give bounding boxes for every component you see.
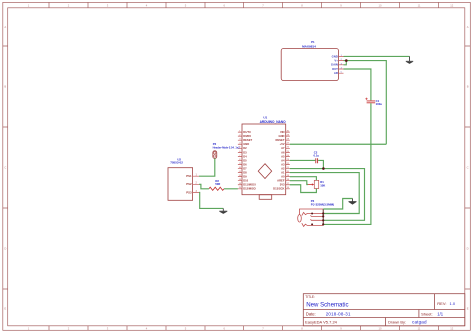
svg-text:50R: 50R — [215, 182, 220, 186]
svg-text:D2: D2 — [243, 146, 247, 150]
svg-text:D5: D5 — [243, 158, 247, 162]
svg-text:AREF: AREF — [277, 179, 285, 183]
svg-text:AR: AR — [334, 71, 338, 75]
svg-text:PJ-325M(3.5MM): PJ-325M(3.5MM) — [311, 202, 334, 206]
svg-text:PS2: PS2 — [186, 182, 192, 186]
svg-text:D: D — [467, 247, 469, 251]
svg-text:D9: D9 — [243, 175, 247, 179]
P1 pin names GND V+ GAIN OUT AR — [331, 54, 338, 75]
svg-text:PS1: PS1 — [186, 174, 192, 178]
svg-text:Header-Male-2.54_1x1: Header-Male-2.54_1x1 — [213, 145, 241, 149]
P3 ring contact — [311, 219, 324, 220]
wire A0 to R1 top — [290, 177, 317, 181]
potentiometer R1 10K — [308, 180, 325, 188]
ground near U2 — [219, 208, 227, 214]
svg-text:11: 11 — [418, 4, 421, 8]
svg-text:A7: A7 — [281, 146, 285, 150]
U1 pins left and right — [238, 132, 290, 189]
wire PS1 to P2 — [199, 158, 215, 176]
wire A4 to C2 — [290, 159, 316, 161]
U1 USB tab — [259, 195, 272, 200]
svg-text:RESET: RESET — [276, 138, 285, 142]
polarized capacitor C1 100u — [365, 98, 382, 106]
wire P1 V+ / GAIN to +5V net — [344, 61, 387, 145]
C2 plates — [316, 158, 318, 163]
ground near P1 — [406, 56, 413, 64]
P3 sleeve barrel — [298, 215, 302, 223]
svg-text:C: C — [4, 166, 6, 170]
svg-text:Sheet:: Sheet: — [421, 311, 433, 316]
P1 pins 1-5 — [339, 56, 344, 73]
svg-text:A2: A2 — [281, 166, 285, 170]
capacitor C2 0.1u — [314, 151, 320, 164]
U1 symbol body — [242, 124, 286, 195]
mcu U1 ARDUINO_NANO — [238, 116, 290, 200]
C1 polarity plus sign — [365, 98, 367, 100]
svg-text:D12/MISO: D12/MISO — [243, 187, 256, 191]
svg-text:2018-08-31: 2018-08-31 — [326, 311, 351, 316]
svg-text:A: A — [4, 25, 6, 29]
junction jack pin5 — [322, 223, 324, 225]
svg-text:D6: D6 — [243, 162, 247, 166]
R1 body — [314, 180, 318, 188]
wire P1 GND to ground — [344, 55, 410, 57]
wire A2 to jack — [290, 169, 365, 221]
svg-text:D1/TX: D1/TX — [243, 130, 251, 134]
svg-text:D10: D10 — [243, 179, 248, 183]
svg-text:A4: A4 — [281, 158, 285, 162]
wire A1 to jack — [290, 173, 359, 214]
svg-text:10: 10 — [379, 327, 382, 331]
P3 contact dot bottom — [311, 223, 313, 225]
P2 symbol body — [213, 151, 217, 159]
svg-text:C: C — [467, 166, 469, 170]
wire AREF to R1 wiper — [290, 181, 308, 185]
svg-text:Drawn By:: Drawn By: — [388, 320, 406, 325]
R1 wiper arrow — [308, 184, 313, 186]
svg-text:A3: A3 — [281, 162, 285, 166]
svg-text:D3: D3 — [243, 150, 247, 154]
svg-text:1/1: 1/1 — [437, 311, 443, 316]
svg-text:GND: GND — [279, 134, 285, 138]
U1 pin numbers 1-15 and 16-30 — [239, 131, 290, 190]
wire +5V from U1 — [290, 143, 387, 145]
svg-text:D11/MOSI: D11/MOSI — [243, 183, 256, 187]
svg-text:D: D — [4, 247, 6, 251]
svg-text:12: 12 — [450, 327, 453, 331]
svg-text:catgad: catgad — [412, 320, 427, 325]
U2 symbol body — [168, 168, 193, 201]
P3 switch contact bottom — [302, 223, 323, 226]
svg-text:D0/RX: D0/RX — [243, 134, 251, 138]
svg-text:E: E — [467, 307, 469, 311]
junction jack pin4 — [322, 219, 324, 221]
svg-text:GND: GND — [243, 142, 249, 146]
svg-text:New Schematic: New Schematic — [306, 301, 348, 308]
svg-text:EasyEDA V5.7.24: EasyEDA V5.7.24 — [305, 320, 338, 325]
P3 pin bus line — [322, 209, 324, 224]
svg-text:12: 12 — [450, 4, 453, 8]
svg-text:A: A — [467, 25, 469, 29]
title block — [303, 294, 465, 326]
junction jack pin3 — [322, 215, 324, 217]
svg-text:+5V: +5V — [280, 142, 285, 146]
wire C2 to A2 net — [318, 160, 323, 168]
junction V+/GAIN — [345, 59, 348, 62]
C1 plates — [367, 101, 376, 103]
wire 3V3 to R1 bottom — [290, 185, 317, 193]
header P2 Header-Male-2.54_1x1 — [213, 142, 241, 158]
svg-text:1.0: 1.0 — [450, 301, 456, 306]
svg-text:D7: D7 — [243, 166, 247, 170]
svg-text:REV:: REV: — [437, 301, 446, 306]
svg-text:70553-02: 70553-02 — [170, 161, 183, 165]
P3 tip contact — [311, 215, 324, 216]
svg-text:ARDUINO_NANO: ARDUINO_NANO — [260, 120, 287, 124]
svg-text:A5: A5 — [281, 154, 285, 158]
U1 right pin names — [273, 130, 285, 191]
svg-text:D4: D4 — [243, 154, 247, 158]
connector U2 70553-02 — [168, 157, 199, 200]
svg-text:E: E — [4, 307, 6, 311]
svg-text:PS3: PS3 — [186, 190, 192, 194]
junction jack pin2 — [322, 212, 324, 214]
P3 contact dot top — [311, 213, 313, 215]
svg-text:B: B — [4, 85, 6, 89]
junction C2/A2 — [322, 167, 325, 170]
svg-text:100u: 100u — [376, 102, 383, 106]
wire GAIN tie — [344, 61, 347, 65]
ground near P3 — [349, 199, 357, 205]
wire P1 OUT via C1 to jack — [323, 69, 371, 224]
svg-text:3V3: 3V3 — [280, 183, 285, 187]
resistor R2 50R — [209, 179, 224, 190]
P1 pin numbers 1-5 — [341, 55, 343, 74]
P1 symbol body — [281, 49, 338, 81]
microphone module P1 MAX9814 — [281, 40, 343, 80]
svg-text:MAX9814: MAX9814 — [302, 45, 316, 49]
svg-text:RESET: RESET — [243, 138, 252, 142]
P3 sleeve pin — [300, 209, 324, 215]
wire PS3 to ground — [199, 192, 223, 208]
svg-text:TITLE:: TITLE: — [305, 295, 315, 299]
svg-text:10: 10 — [379, 4, 382, 8]
U2 pin names PS1 PS2 PS3 — [186, 174, 192, 194]
svg-text:11: 11 — [418, 327, 421, 331]
svg-text:D13/SCK: D13/SCK — [273, 187, 284, 191]
svg-text:D8: D8 — [243, 171, 247, 175]
svg-text:10K: 10K — [320, 184, 325, 188]
wire PS2 to R2 to D12 — [199, 184, 238, 189]
audio jack P3 PJ-325M(3.5MM) — [298, 199, 334, 227]
U2 pin numbers 1-3 — [196, 175, 198, 193]
svg-text:A0: A0 — [281, 175, 285, 179]
svg-text:0.1u: 0.1u — [314, 154, 320, 158]
wires — [199, 56, 410, 224]
svg-text:A1: A1 — [281, 171, 285, 175]
R2 zigzag body — [209, 187, 224, 190]
svg-text:Date:: Date: — [306, 311, 316, 316]
U1 diamond mark — [258, 164, 272, 179]
U1 left pin names — [243, 130, 256, 191]
P3 switch contact top — [302, 212, 323, 215]
U2 pins 1-3 — [193, 176, 199, 192]
wire jack sleeve to ground — [323, 199, 352, 210]
svg-text:VIN: VIN — [280, 130, 285, 134]
svg-text:B: B — [467, 85, 469, 89]
svg-text:A6: A6 — [281, 150, 285, 154]
